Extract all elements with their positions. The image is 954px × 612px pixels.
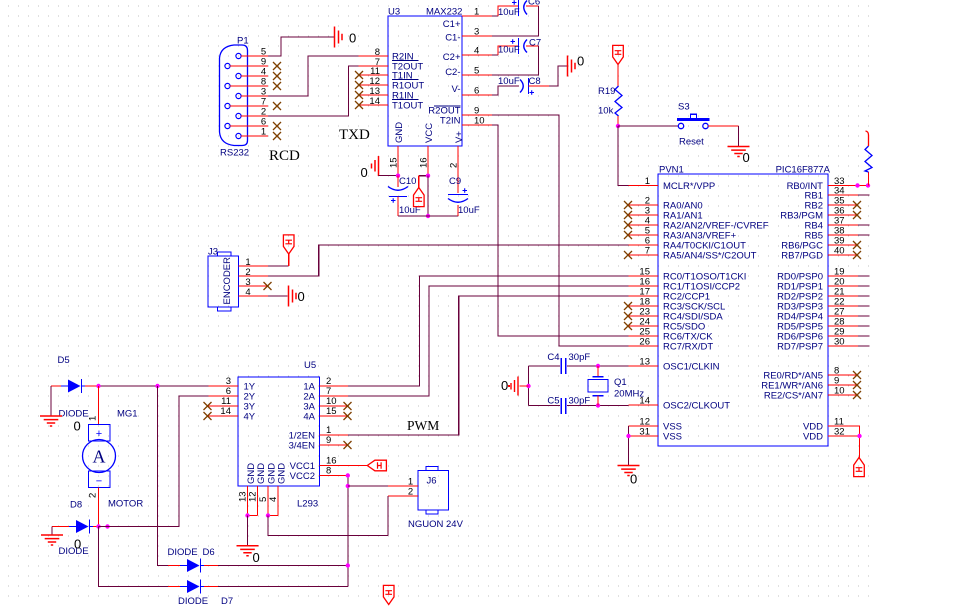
wire U5 GND to ground — [247, 516, 249, 546]
svg-text:C1+: C1+ — [443, 19, 461, 30]
svg-text:32: 32 — [834, 427, 845, 438]
pin 29 (RD6/PSP6) of U1 PIC — [777, 327, 858, 343]
svg-text:RD7/PSP7: RD7/PSP7 — [777, 342, 823, 353]
capacitor C4 — [560, 358, 566, 374]
ground 0 (D5) — [40, 416, 81, 434]
pin 10 (RE2/CS*/AN7) of U1 PIC — [764, 386, 858, 402]
pin 18 (RC3/SCK/SCL) of U1 PIC — [629, 297, 726, 313]
no-connect X — [853, 391, 861, 399]
svg-text:VCC2: VCC2 — [290, 471, 315, 482]
svg-text:0: 0 — [361, 165, 368, 180]
pin 17 (RC2/CCP1) of U1 PIC — [629, 287, 711, 303]
wire to J6 pin1 — [348, 485, 388, 487]
wire P1 pin3 to U3 R2IN — [268, 56, 359, 96]
connector J3 ENCODER — [208, 252, 239, 311]
svg-text:30: 30 — [834, 337, 845, 348]
svg-text:30pF: 30pF — [569, 352, 591, 363]
junction — [426, 174, 430, 178]
svg-text:31: 31 — [639, 427, 650, 438]
svg-text:1: 1 — [645, 176, 650, 187]
switch S3 — [677, 114, 710, 129]
svg-text:3: 3 — [474, 27, 479, 38]
pin 37 (RB4) of U1 PIC — [805, 216, 858, 232]
pin 2 of J6 — [388, 487, 418, 498]
svg-text:10uF: 10uF — [458, 205, 480, 216]
svg-text:DIODE: DIODE — [168, 547, 198, 558]
svg-text:30pF: 30pF — [569, 396, 591, 407]
svg-text:15: 15 — [389, 157, 400, 168]
diode D7 — [180, 580, 204, 594]
svg-text:10: 10 — [834, 386, 845, 397]
svg-text:1: 1 — [474, 7, 479, 18]
wire U5 GND to J6 pin2 — [268, 516, 388, 536]
junction — [346, 563, 350, 567]
power port VCC (PIC VDD) — [854, 458, 865, 477]
no-connect X — [624, 201, 632, 209]
pin 12 (GND) of U5 — [248, 463, 268, 516]
svg-text:OSC2/CLKOUT: OSC2/CLKOUT — [663, 401, 730, 412]
wire motor junction down to D7 — [99, 527, 181, 587]
junction — [596, 364, 600, 368]
svg-text:1: 1 — [88, 416, 99, 421]
svg-text:6: 6 — [474, 86, 479, 97]
svg-text:RE2/CS*/AN7: RE2/CS*/AN7 — [764, 391, 823, 402]
wire — [858, 295, 870, 297]
svg-text:T1OUT: T1OUT — [392, 101, 423, 112]
no-connect X — [853, 371, 861, 379]
wire U3 T2IN to PIC RC6/TX — [492, 125, 629, 336]
power port VCC (R19) — [613, 45, 624, 64]
svg-text:RA5/AN4/SS*/C2OUT: RA5/AN4/SS*/C2OUT — [663, 251, 757, 262]
wire S3 to ground — [708, 126, 738, 146]
pin 40 (RB7/PGD) of U1 PIC — [781, 246, 858, 262]
pin 2 (V+) of U3 — [449, 131, 466, 176]
no-connect X — [344, 402, 352, 410]
no-connect X — [624, 302, 632, 310]
pin 15 (RC0/T1OSO/T1CKI) of U1 PIC — [629, 267, 747, 283]
wire — [858, 335, 870, 337]
pin 6 (2Y) of U5 — [209, 386, 256, 403]
pin 15 (GND) of U3 — [389, 122, 406, 176]
svg-text:NGUON 24V: NGUON 24V — [408, 519, 464, 530]
wire R19 to junction — [617, 116, 619, 126]
svg-text:−: − — [96, 476, 102, 488]
ground 0 (C8) — [568, 54, 585, 77]
pin 33 (RB0/INT) of U1 PIC — [787, 176, 858, 192]
pin 20 (RD1/PSP1) of U1 PIC — [777, 277, 858, 293]
svg-text:RCD: RCD — [269, 148, 300, 164]
pin 3 (1Y) of U5 — [209, 376, 256, 393]
pin 2 of J3 — [239, 267, 269, 278]
pin 23 (RC4/SDI/SDA) of U1 PIC — [629, 307, 724, 323]
ground 0 (crystal) — [501, 377, 518, 396]
svg-text:RS232: RS232 — [220, 148, 249, 159]
wire power to R19 — [617, 65, 619, 87]
junction — [866, 183, 870, 187]
ground 0 (P1 pin5) — [335, 27, 357, 48]
svg-text:16: 16 — [419, 157, 430, 168]
svg-text:C2-: C2- — [445, 67, 460, 78]
svg-text:2: 2 — [408, 487, 413, 498]
svg-text:20MHz: 20MHz — [614, 389, 644, 400]
svg-text:S3: S3 — [678, 102, 690, 113]
svg-text:C9: C9 — [449, 176, 461, 187]
pin 4 of J3 — [239, 287, 269, 298]
wire — [858, 194, 870, 196]
IC U3 MAX232 body — [388, 16, 462, 146]
capacitor C7 — [511, 38, 528, 54]
svg-text:VCC: VCC — [424, 123, 435, 143]
svg-text:OSC1/CLKIN: OSC1/CLKIN — [663, 362, 720, 373]
svg-text:D7: D7 — [221, 596, 233, 607]
junction — [616, 124, 620, 128]
wire C7 to U3 pin5 — [492, 46, 539, 75]
svg-text:4: 4 — [268, 497, 279, 502]
capacitor C9 — [448, 146, 468, 216]
svg-text:ENCODER: ENCODER — [222, 257, 233, 305]
pin 3 of P1 — [241, 87, 268, 98]
pin 14 (4Y) of U5 — [209, 406, 256, 423]
svg-text:26: 26 — [639, 337, 650, 348]
pin 4 (C2+) of U3 — [443, 46, 492, 64]
wire ground to link — [520, 385, 529, 387]
junction — [266, 513, 270, 517]
svg-text:D6: D6 — [203, 547, 215, 558]
no-connect X — [355, 91, 363, 99]
wire U5 VCC2 net — [347, 476, 349, 587]
wire PIC VDD pins to power — [858, 426, 860, 458]
svg-text:3/4EN: 3/4EN — [289, 441, 316, 452]
svg-text:2: 2 — [88, 493, 99, 498]
capacitor C6 — [512, 0, 527, 16]
pin 16 (VCC1) of U5 — [290, 456, 348, 473]
pin 11 (VDD) of U1 PIC — [803, 417, 858, 433]
pin 22 (RD3/PSP3) of U1 PIC — [777, 297, 858, 313]
wire — [858, 285, 870, 287]
resistor R19 — [615, 86, 622, 116]
pin 1 (1/2EN) of U5 — [289, 425, 348, 442]
no-connect X — [273, 132, 281, 140]
wire — [858, 325, 870, 327]
pin 24 (RC5/SDO) of U1 PIC — [629, 317, 706, 333]
svg-text:PWM: PWM — [407, 418, 439, 433]
pin 3 (RA1/AN1) of U1 PIC — [629, 206, 703, 222]
ground 0 (S3) — [728, 147, 750, 166]
pin 1 of P1 — [241, 127, 268, 138]
wire — [858, 315, 870, 317]
svg-text:0: 0 — [298, 289, 305, 304]
crystal Q1 — [588, 366, 608, 406]
pin 14 (T1OUT) of U3 — [359, 96, 424, 112]
ground 0 (U5) — [237, 546, 260, 565]
junction — [96, 524, 100, 528]
pin 5 (RA3/AN3/VREF+) of U1 PIC — [629, 226, 737, 242]
ground 0 (U3 GND pin15) — [361, 156, 379, 180]
svg-text:J3: J3 — [208, 247, 218, 258]
junction — [105, 524, 109, 528]
no-connect X — [273, 62, 281, 70]
wire J3 pin2 to PIC RA4 — [268, 245, 629, 276]
svg-text:PIC16F877A: PIC16F877A — [776, 165, 831, 176]
no-connect X — [344, 412, 352, 420]
junction — [396, 174, 400, 178]
svg-text:VDD: VDD — [803, 432, 823, 443]
svg-text:0: 0 — [74, 537, 81, 552]
wire D5 anode to ground — [51, 386, 61, 416]
wire U3 R2OUT to PIC RC7/RX — [492, 115, 629, 346]
label DIODE D6 — [168, 547, 215, 558]
capacitor C8 — [520, 78, 534, 95]
pin 4 of P1 — [241, 67, 268, 78]
svg-text:0: 0 — [349, 31, 356, 46]
wire OSC1 net — [529, 365, 629, 367]
pin 26 (RC7/RX/DT) of U1 PIC — [629, 337, 714, 353]
svg-text:GND: GND — [394, 122, 405, 143]
pin 1 (C1+) of U3 — [443, 7, 492, 31]
no-connect X — [853, 381, 861, 389]
pin 2 (1A) of U5 — [303, 376, 348, 393]
svg-text:V-: V- — [452, 84, 461, 95]
svg-text:+: + — [96, 428, 102, 440]
pin 13 (R1IN) of U3 — [359, 86, 414, 102]
svg-text:0: 0 — [501, 378, 508, 393]
pin 34 (RB1) of U1 PIC — [805, 186, 858, 202]
svg-text:C2+: C2+ — [443, 52, 461, 63]
svg-text:U3: U3 — [388, 7, 400, 18]
svg-text:MAX232: MAX232 — [426, 7, 462, 18]
svg-text:0: 0 — [630, 472, 637, 487]
svg-text:12: 12 — [248, 491, 259, 502]
pin 11 (T1IN) of U3 — [359, 66, 413, 82]
wire U3 pin1 to C6 — [492, 6, 518, 16]
svg-text:5: 5 — [474, 66, 479, 77]
wire junction to PIC MCLR — [618, 126, 629, 186]
svg-text:RB7/PGD: RB7/PGD — [781, 251, 823, 262]
junction — [346, 473, 350, 477]
wire C6 to U3 pin3 — [492, 6, 539, 36]
pin 7 (T2OUT) of U3 — [359, 57, 424, 73]
svg-text:10: 10 — [474, 116, 485, 127]
wire U5 2A to PIC RC1 — [348, 286, 629, 396]
wire D5 cathode to U5 1Y — [85, 385, 209, 387]
diode D6 — [168, 565, 180, 567]
wire motor junction to U5 2Y — [99, 396, 209, 527]
resistor R20 (right edge) — [865, 131, 872, 186]
svg-text:A: A — [93, 447, 106, 467]
pin 36 (RB3/PGM) of U1 PIC — [780, 206, 858, 222]
wire PIC RB0 to resistor — [858, 185, 869, 187]
svg-text:0: 0 — [577, 54, 584, 69]
wire P1 pin5 to ground — [268, 37, 335, 56]
svg-text:C10: C10 — [399, 176, 416, 187]
no-connect X — [344, 441, 352, 449]
svg-text:10uF: 10uF — [498, 76, 520, 87]
svg-text:0: 0 — [253, 550, 260, 565]
svg-text:14: 14 — [369, 96, 380, 107]
pin 13 (GND) of U5 — [238, 463, 258, 516]
pin 19 (RD0/PSP0) of U1 PIC — [777, 267, 858, 283]
svg-text:10uF: 10uF — [498, 45, 520, 56]
wire D5 junction down to D6 — [158, 386, 169, 566]
wire U3 pin4 to C7 — [492, 46, 518, 55]
pin 21 (RD2/PSP2) of U1 PIC — [777, 287, 858, 303]
pin 6 (V-) of U3 — [452, 84, 492, 97]
pin 2 (RA0/AN0) of U1 PIC — [629, 196, 703, 212]
svg-text:TXD: TXD — [339, 127, 370, 143]
junction — [96, 384, 100, 388]
connector P1 (DB9 RS232) — [220, 45, 248, 146]
svg-text:C5: C5 — [547, 396, 559, 407]
svg-text:9: 9 — [326, 435, 331, 446]
pin 8 of P1 — [230, 77, 268, 88]
pin 32 (VDD) of U1 PIC — [803, 427, 858, 443]
motor MG1 — [83, 386, 116, 527]
pin 1 of J3 — [239, 257, 269, 268]
svg-text:C4: C4 — [547, 352, 559, 363]
junction — [426, 214, 430, 218]
svg-text:R19: R19 — [598, 86, 615, 97]
svg-text:13: 13 — [639, 357, 650, 368]
svg-text:D5: D5 — [58, 355, 70, 366]
pin 9 (R2OUT) of U3 — [428, 106, 492, 117]
svg-text:4: 4 — [474, 46, 479, 57]
svg-text:1: 1 — [261, 127, 266, 138]
svg-text:RC7/RX/DT: RC7/RX/DT — [663, 342, 713, 353]
power port VCC (J3 pin1) — [283, 235, 294, 254]
pin 27 (RD4/PSP4) of U1 PIC — [777, 307, 858, 323]
ground 0 (D8) — [41, 535, 81, 552]
no-connect X — [853, 241, 861, 249]
wire C8 to ground — [529, 66, 568, 86]
ground 0 (J3 pin4) — [289, 286, 305, 307]
svg-text:GND: GND — [256, 463, 267, 484]
svg-text:MG1: MG1 — [117, 409, 138, 420]
svg-text:4Y: 4Y — [244, 412, 256, 423]
junction — [245, 513, 249, 517]
diode D8 — [69, 520, 93, 534]
svg-text:GND: GND — [277, 463, 288, 484]
svg-text:15: 15 — [326, 406, 337, 417]
svg-text:4: 4 — [245, 287, 250, 298]
no-connect X — [355, 81, 363, 89]
pin 6 of P1 — [230, 117, 268, 128]
wire U3 pin16 junction to power — [419, 176, 428, 188]
ground 0 (PIC VSS) — [618, 466, 640, 487]
wire U5 1/2EN to PIC RC2 (PWM) — [348, 296, 629, 435]
power port VCC (U3 pin16) — [414, 188, 425, 207]
junction — [155, 384, 159, 388]
pin 8 (VCC2) of U5 — [290, 466, 348, 483]
pin 39 (RB6/PGC) of U1 PIC — [781, 236, 858, 252]
capacitor C10 — [388, 176, 408, 216]
svg-text:4A: 4A — [303, 412, 315, 423]
wire bottom rail — [398, 215, 458, 217]
svg-text:PVN1: PVN1 — [659, 165, 684, 176]
pin 8 (RE0/RD*/AN5) of U1 PIC — [763, 366, 858, 382]
capacitor C5 — [560, 398, 566, 414]
svg-text:8: 8 — [326, 466, 331, 477]
pin 16 (RC1/T1OSI/CCP2) of U1 PIC — [629, 277, 741, 293]
no-connect X — [355, 101, 363, 109]
pin 10 (3A) of U5 — [303, 396, 348, 413]
no-connect X — [273, 102, 281, 110]
svg-text:Q1: Q1 — [614, 377, 627, 388]
svg-text:L293: L293 — [297, 499, 318, 510]
pin 38 (RB5) of U1 PIC — [805, 226, 858, 242]
pin 9 (RE1/WR*/AN6) of U1 PIC — [761, 376, 858, 392]
svg-text:VSS: VSS — [663, 432, 682, 443]
wire U5 VCC1 to power — [348, 465, 367, 467]
svg-text:10uF: 10uF — [498, 7, 520, 18]
junction — [526, 384, 530, 388]
svg-text:MOTOR: MOTOR — [108, 499, 143, 510]
pin 11 (3Y) of U5 — [209, 396, 256, 413]
wire D8 cathode to motor junction — [93, 526, 99, 528]
no-connect X — [204, 412, 212, 420]
svg-text:DIODE: DIODE — [178, 596, 208, 607]
wire P1 pin2 to U3 T2OUT — [268, 66, 359, 116]
junction — [346, 484, 350, 488]
no-connect X — [624, 221, 632, 229]
svg-text:MCLR*/VPP: MCLR*/VPP — [663, 181, 715, 192]
pin 12 (R1OUT) of U3 — [359, 76, 425, 92]
pin 2 of P1 — [241, 107, 268, 118]
wire U3 pin6 to C8 — [492, 86, 519, 95]
svg-text:7: 7 — [645, 246, 650, 257]
no-connect X — [624, 211, 632, 219]
IC U5 L293 body — [238, 377, 320, 486]
junction — [626, 434, 630, 438]
no-connect X — [273, 122, 281, 130]
pin 30 (RD7/PSP7) of U1 PIC — [777, 337, 858, 353]
pin 7 (2A) of U5 — [303, 386, 348, 403]
wire OSC2 net — [529, 405, 629, 407]
no-connect X — [624, 312, 632, 320]
wire junction to S3 — [618, 125, 678, 127]
power port VCC (24V net) — [383, 585, 394, 604]
svg-text:C7: C7 — [529, 38, 541, 49]
pin 13 (OSC1/CLKIN) of U1 PIC — [629, 357, 720, 373]
wire D7 cathode — [204, 586, 348, 588]
no-connect X — [853, 201, 861, 209]
pin 3 of J3 — [239, 277, 269, 288]
svg-text:C1-: C1- — [445, 33, 460, 44]
pin 7 (RA5/AN4/SS*/C2OUT) of U1 PIC — [629, 246, 757, 262]
no-connect X — [264, 282, 272, 290]
svg-text:U5: U5 — [304, 360, 316, 371]
pin 10 (T2IN) of U3 — [440, 116, 492, 127]
pin 35 (RB2) of U1 PIC — [805, 196, 858, 212]
svg-text:D8: D8 — [70, 500, 82, 511]
no-connect X — [853, 211, 861, 219]
pin 3 (C1-) of U3 — [445, 27, 492, 44]
no-connect X — [853, 251, 861, 259]
pin 6 (RA4/T0CKI/C1OUT) of U1 PIC — [629, 236, 747, 252]
pin 1 of J6 — [388, 477, 418, 488]
wire — [858, 234, 870, 236]
no-connect X — [355, 71, 363, 79]
diode D5 — [61, 379, 85, 393]
pin 5 (C2-) of U3 — [445, 66, 492, 79]
wire D6 cathode — [204, 565, 348, 567]
IC PVN1 PIC16F877A body — [658, 174, 828, 446]
pin 16 (VCC) of U3 — [419, 123, 436, 176]
svg-text:40: 40 — [834, 246, 845, 257]
wire — [858, 275, 870, 277]
pin 31 (VSS) of U1 PIC — [629, 427, 683, 443]
svg-text:0: 0 — [743, 150, 750, 165]
connector J6 (NGUON 24V) — [418, 467, 449, 515]
